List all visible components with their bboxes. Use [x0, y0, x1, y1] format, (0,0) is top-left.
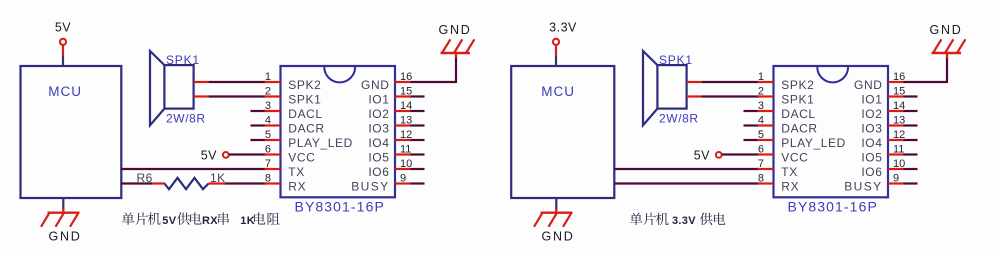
svg-text:GND: GND: [361, 78, 389, 92]
svg-text:RX: RX: [288, 180, 306, 194]
speaker SPK1: [150, 51, 206, 125]
svg-text:12: 12: [400, 129, 412, 141]
svg-text:1: 1: [265, 71, 271, 83]
svg-text:10: 10: [893, 158, 905, 170]
wire R6 to U1 pin 8 (RX): [225, 182, 266, 184]
svg-text:IO1: IO1: [861, 93, 882, 107]
IC U1 BY8301-16P: [281, 66, 396, 197]
svg-text:TX: TX: [781, 165, 798, 179]
svg-text:PLAY_LED: PLAY_LED: [781, 136, 846, 150]
svg-text:DACL: DACL: [781, 107, 815, 121]
wire U2 pin 16 to ground: [904, 56, 948, 83]
svg-text:SPK2: SPK2: [288, 78, 321, 92]
power 5V symbol at U2 VCC: [694, 148, 722, 162]
svg-text:GND: GND: [854, 78, 882, 92]
svg-text:RX: RX: [202, 215, 218, 227]
svg-text:SPK1: SPK1: [781, 93, 814, 107]
U2 left pin numbers 1-8: [758, 71, 764, 185]
svg-text:15: 15: [400, 86, 412, 98]
svg-text:4: 4: [265, 115, 271, 127]
svg-text:13: 13: [400, 115, 412, 127]
ground GND at U1 pin 16: [439, 23, 475, 58]
svg-text:IO4: IO4: [368, 136, 389, 150]
svg-text:1: 1: [758, 71, 764, 83]
U2 left pins 1-8 stubs: [744, 82, 774, 184]
svg-text:6: 6: [265, 144, 271, 156]
svg-text:14: 14: [893, 100, 905, 112]
svg-text:RX: RX: [781, 180, 799, 194]
svg-text:BY8301-16P: BY8301-16P: [788, 199, 878, 215]
svg-text:GND: GND: [542, 229, 575, 243]
svg-text:16: 16: [893, 71, 905, 83]
U2 right pins 16-9 stubs: [888, 82, 918, 184]
resistor R6: [137, 171, 226, 189]
svg-text:VCC: VCC: [288, 151, 315, 165]
svg-text:9: 9: [893, 173, 899, 185]
svg-text:5: 5: [758, 129, 764, 141]
svg-text:MCU: MCU: [48, 84, 82, 99]
SPK1 pin stubs: [687, 82, 702, 97]
wire SPK1 to U2 pin 2 (SPK1): [702, 95, 759, 97]
svg-text:3: 3: [265, 100, 271, 112]
svg-text:5V: 5V: [201, 148, 217, 162]
wire MCU1 to ground: [62, 198, 64, 211]
svg-text:2: 2: [758, 86, 764, 98]
svg-text:SPK1: SPK1: [659, 53, 693, 67]
svg-text:3: 3: [758, 100, 764, 112]
svg-text:IO3: IO3: [368, 122, 389, 136]
svg-text:3.3V: 3.3V: [672, 215, 696, 227]
svg-text:12: 12: [893, 129, 905, 141]
wire MCU2 to ground: [555, 198, 557, 211]
wire 5V to U2 pin 6 (VCC): [722, 153, 759, 155]
svg-text:GND: GND: [439, 23, 472, 37]
svg-text:SPK1: SPK1: [166, 53, 200, 67]
wire 3.3V to MCU2 VCC pin: [555, 56, 557, 67]
svg-text:BY8301-16P: BY8301-16P: [295, 199, 385, 215]
svg-text:11: 11: [893, 144, 904, 156]
wire U1 pin 16 to ground: [411, 56, 457, 83]
MCU MCU1: [21, 66, 122, 198]
svg-text:IO6: IO6: [861, 165, 882, 179]
svg-text:BUSY: BUSY: [844, 180, 882, 194]
wire MCU1 to U1 pin 7 (TX): [121, 168, 266, 170]
MCU MCU2: [511, 66, 614, 198]
wire MCU2 to U2 pin 7 (TX): [614, 168, 759, 170]
svg-text:MCU: MCU: [541, 84, 575, 99]
U1 right pin numbers 16-9: [400, 71, 412, 185]
svg-text:DACR: DACR: [781, 122, 817, 136]
wire SPK1 to U1 pin 2 (SPK1): [209, 95, 266, 97]
svg-text:11: 11: [400, 144, 411, 156]
svg-text:5V: 5V: [694, 148, 710, 162]
svg-text:IO3: IO3: [861, 122, 882, 136]
svg-text:TX: TX: [288, 165, 305, 179]
caption: 单片机5V供电RX串1K电阻: [122, 212, 280, 227]
U2 right pin labels: [844, 78, 882, 194]
svg-text:GND: GND: [930, 23, 963, 37]
svg-text:6: 6: [758, 144, 764, 156]
power 3.3V supply symbol at MCU2: [549, 21, 577, 56]
svg-text:7: 7: [758, 158, 764, 170]
IC U2 BY8301-16P: [774, 66, 889, 197]
svg-text:14: 14: [400, 100, 412, 112]
wire MCU1 to resistor R6: [121, 182, 153, 184]
svg-text:7: 7: [265, 158, 271, 170]
svg-text:5V: 5V: [55, 21, 71, 35]
svg-text:2: 2: [265, 86, 271, 98]
U2 right pin numbers 16-9: [893, 71, 905, 185]
svg-text:IO2: IO2: [861, 107, 882, 121]
caption: 单片机3.3V供电: [630, 213, 726, 228]
svg-text:2W/8R: 2W/8R: [659, 111, 699, 125]
svg-text:5: 5: [265, 129, 271, 141]
ground GND at U2 pin 16: [930, 23, 966, 58]
svg-text:8: 8: [758, 173, 764, 185]
svg-text:GND: GND: [49, 229, 82, 243]
svg-text:5V: 5V: [162, 215, 176, 227]
wire MCU2 to U2 pin 8 (RX): [614, 182, 759, 184]
svg-text:BUSY: BUSY: [351, 180, 389, 194]
U2 left pin labels: [781, 78, 846, 194]
svg-text:VCC: VCC: [781, 151, 808, 165]
svg-text:IO2: IO2: [368, 107, 389, 121]
svg-text:4: 4: [758, 115, 764, 127]
svg-text:3.3V: 3.3V: [549, 21, 577, 35]
wire 5V to MCU1 VCC pin: [62, 56, 64, 67]
svg-text:2W/8R: 2W/8R: [166, 111, 206, 125]
ground GND below MCU1: [41, 209, 81, 244]
U1 left pin numbers 1-8: [265, 71, 271, 185]
U1 left pins 1-8 stubs: [251, 82, 281, 184]
U1 right pin labels: [351, 78, 389, 194]
wire SPK1 to U1 pin 1 (SPK2): [209, 81, 266, 83]
wire SPK1 to U2 pin 1 (SPK2): [702, 81, 759, 83]
svg-text:IO5: IO5: [368, 151, 389, 165]
power 5V supply symbol at MCU1: [55, 21, 71, 56]
svg-text:DACR: DACR: [288, 122, 324, 136]
wire 5V to U1 pin 6 (VCC): [229, 153, 266, 155]
U1 left pin labels: [288, 78, 353, 194]
svg-text:SPK2: SPK2: [781, 78, 814, 92]
svg-text:IO1: IO1: [368, 93, 389, 107]
svg-text:R6: R6: [137, 171, 153, 185]
power 5V symbol at U1 VCC: [201, 148, 229, 162]
ground GND below MCU2: [534, 209, 574, 244]
svg-text:8: 8: [265, 173, 271, 185]
U1 right pins 16-9 stubs: [395, 82, 425, 184]
svg-text:1K: 1K: [240, 215, 255, 227]
svg-text:9: 9: [400, 173, 406, 185]
svg-text:PLAY_LED: PLAY_LED: [288, 136, 353, 150]
svg-text:DACL: DACL: [288, 107, 322, 121]
svg-text:SPK1: SPK1: [288, 93, 321, 107]
svg-text:1K: 1K: [210, 171, 226, 185]
svg-text:IO5: IO5: [861, 151, 882, 165]
SPK1 pin stubs: [194, 82, 209, 97]
svg-text:10: 10: [400, 158, 412, 170]
svg-text:15: 15: [893, 86, 905, 98]
svg-text:IO4: IO4: [861, 136, 882, 150]
svg-text:13: 13: [893, 115, 905, 127]
speaker SPK1: [643, 51, 699, 125]
svg-text:IO6: IO6: [368, 165, 389, 179]
svg-text:16: 16: [400, 71, 412, 83]
